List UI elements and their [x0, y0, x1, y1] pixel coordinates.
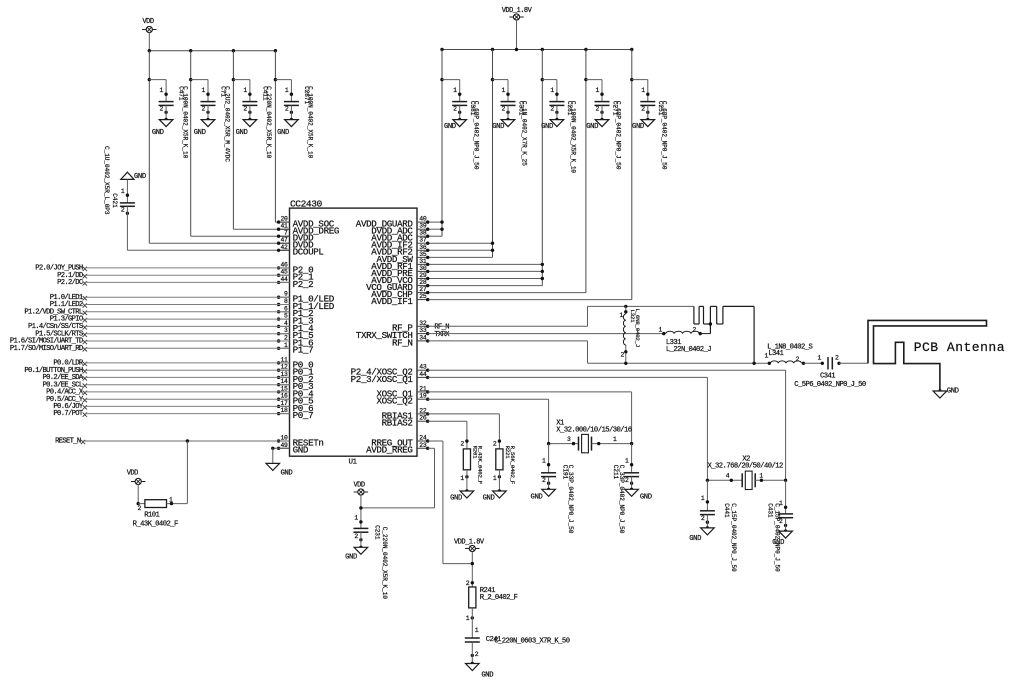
svg-text:AVDD_RREG: AVDD_RREG	[366, 445, 412, 456]
svg-text:7: 7	[284, 230, 288, 237]
pin 20 AVDD_SOC	[277, 216, 335, 230]
svg-text:2: 2	[460, 440, 464, 447]
svg-text:2: 2	[285, 106, 289, 113]
pin 46 P2_0	[277, 261, 313, 275]
wire TXRX net	[428, 333, 664, 335]
pin 38 AVDD_ADC	[371, 230, 429, 244]
svg-text:40: 40	[419, 216, 427, 223]
inductor L321	[619, 305, 640, 365]
pin 9 P1_0/LED	[277, 291, 335, 305]
pin 19 XOSC_Q2	[376, 393, 429, 407]
pin 1 P1_7	[277, 342, 313, 356]
svg-text:GND: GND	[450, 495, 462, 503]
svg-text:P2.2/DC: P2.2/DC	[57, 279, 84, 287]
svg-text:C_68P_0402_NP0_J_50: C_68P_0402_NP0_J_50	[660, 101, 667, 170]
svg-text:26: 26	[419, 415, 427, 422]
svg-text:VDD: VDD	[142, 18, 153, 26]
svg-text:GND: GND	[277, 129, 289, 137]
svg-text:C_1N_0402_X7R_K_25: C_1N_0402_X7R_K_25	[521, 101, 528, 166]
svg-text:1: 1	[641, 87, 645, 94]
wire VDD to left bus	[148, 33, 150, 51]
capacitor C381	[444, 80, 479, 170]
pin 44 P2_3/XOSC_Q1	[351, 371, 430, 385]
svg-text:11: 11	[281, 356, 289, 363]
capacitor C431	[767, 480, 793, 572]
svg-text:C341: C341	[820, 373, 835, 381]
inductor L341	[764, 343, 812, 365]
svg-text:2: 2	[835, 355, 839, 362]
svg-text:1: 1	[201, 87, 205, 94]
wire right VDD_1.8V bus	[442, 49, 632, 51]
svg-text:47: 47	[281, 237, 289, 244]
svg-text:2: 2	[137, 505, 141, 512]
node RESET_N	[55, 438, 289, 446]
svg-text:C_33P_0402_NP0_J_50: C_33P_0402_NP0_J_50	[567, 465, 574, 534]
svg-text:GND: GND	[152, 129, 164, 137]
capacitor C341	[794, 355, 866, 390]
svg-text:35: 35	[419, 251, 427, 258]
capacitor C421	[103, 146, 135, 250]
svg-text:GND: GND	[483, 495, 495, 503]
svg-text:C_100N_0402_X5R_K_10: C_100N_0402_X5R_K_10	[181, 86, 188, 159]
svg-text:49: 49	[281, 442, 289, 449]
node left bus junctions	[148, 49, 277, 52]
svg-text:5: 5	[284, 313, 288, 320]
node P0.4/ACC_X	[46, 389, 289, 397]
node P1.5/SCLK/RTS	[35, 330, 289, 338]
svg-text:VDD: VDD	[127, 470, 138, 478]
svg-text:X_32.000/10/15/30/16: X_32.000/10/15/30/16	[556, 427, 632, 435]
svg-text:1: 1	[613, 436, 617, 443]
pin 36 AVDD_RF2	[371, 244, 429, 258]
ground (U1 pin 49)	[266, 463, 292, 477]
svg-text:1: 1	[501, 87, 505, 94]
wire VDD to C231	[360, 495, 362, 528]
svg-text:2: 2	[493, 440, 497, 447]
node P2.2/DC	[57, 279, 289, 287]
pin 21 XOSC_Q1	[376, 385, 429, 399]
svg-text:1: 1	[493, 475, 497, 482]
pin 49 GND	[277, 442, 309, 456]
svg-text:29: 29	[419, 272, 427, 279]
svg-text:GND: GND	[531, 493, 543, 501]
svg-text:44: 44	[281, 276, 289, 283]
svg-text:R_2_0402_F: R_2_0402_F	[480, 594, 518, 602]
svg-text:1: 1	[542, 458, 546, 465]
pin 28 VCO_GUARD	[366, 279, 429, 293]
pin 47 DVDD	[277, 237, 314, 251]
wire right branch 3	[541, 50, 557, 286]
wire C341 to antenna	[839, 362, 868, 364]
svg-text:VDD: VDD	[353, 482, 364, 490]
node P2.0/JOY_PUSH	[35, 265, 289, 273]
svg-text:2: 2	[466, 580, 470, 587]
pin 37 AVDD_IF2	[371, 237, 429, 251]
wire RBIAS2 to R261	[428, 420, 467, 422]
pin 22 RBIAS1	[382, 407, 430, 421]
svg-text:2: 2	[354, 533, 358, 540]
power symbol VDD (R101)	[127, 470, 146, 485]
svg-text:R_43K_0402_F: R_43K_0402_F	[133, 521, 178, 529]
svg-text:1: 1	[121, 188, 125, 195]
wire P2_3/XOSC_Q1 to X2	[428, 376, 708, 378]
svg-text:18: 18	[281, 407, 289, 414]
pin 8 P1_1/LED	[277, 298, 335, 312]
svg-text:10: 10	[281, 435, 289, 442]
svg-text:GND: GND	[293, 445, 309, 456]
pin 25 AVDD_IF1	[371, 293, 429, 307]
svg-text:P1.7/SO/MISO/UART_RD: P1.7/SO/MISO/UART_RD	[10, 345, 83, 353]
pin 10 RESETn	[277, 435, 324, 449]
svg-text:RF_N: RF_N	[392, 337, 413, 348]
svg-text:C421: C421	[111, 193, 118, 208]
crystal X1	[547, 420, 633, 453]
svg-text:1: 1	[460, 475, 464, 482]
svg-text:RBIAS2: RBIAS2	[382, 418, 413, 429]
power symbol VDD_1.8V (top right)	[502, 7, 533, 20]
capacitor C251	[632, 80, 667, 170]
pin 13 P0_2	[277, 371, 313, 385]
svg-text:R_56K_0402_F: R_56K_0402_F	[509, 446, 516, 485]
svg-text:GND: GND	[481, 671, 493, 679]
svg-text:1: 1	[243, 87, 247, 94]
svg-text:12: 12	[281, 364, 289, 371]
svg-text:14: 14	[281, 378, 289, 385]
svg-text:2: 2	[701, 515, 705, 522]
svg-text:L_6N8_0402_J: L_6N8_0402_J	[634, 309, 641, 348]
pin 23 AVDD_RREG	[366, 442, 429, 456]
svg-text:3: 3	[567, 436, 571, 443]
svg-text:P2_3/XOSC_Q1: P2_3/XOSC_Q1	[351, 374, 414, 385]
svg-text:44: 44	[419, 371, 427, 378]
wire right power net row 7	[428, 263, 543, 265]
wire left VDD bus	[149, 50, 275, 52]
svg-text:1: 1	[550, 87, 554, 94]
svg-text:21: 21	[419, 385, 427, 392]
wire GND pin to ground	[273, 447, 290, 449]
svg-text:1: 1	[595, 87, 599, 94]
svg-text:22: 22	[419, 407, 427, 414]
svg-text:TXRX: TXRX	[434, 331, 450, 339]
svg-text:15: 15	[281, 385, 289, 392]
capacitor C231	[345, 515, 388, 600]
pin 29 AVDD_VCO	[371, 272, 429, 286]
svg-text:2: 2	[453, 106, 457, 113]
svg-text:2: 2	[243, 106, 247, 113]
pin 7 DVDD	[277, 230, 314, 244]
svg-text:30: 30	[419, 265, 427, 272]
pin 11 P0_0	[277, 356, 313, 370]
svg-text:C_1U_0402_X5R_L_0P3: C_1U_0402_X5R_L_0P3	[103, 146, 110, 215]
svg-text:GND: GND	[194, 129, 206, 137]
svg-text:1: 1	[466, 615, 470, 622]
svg-text:GND: GND	[281, 470, 293, 478]
capacitor C191	[531, 444, 574, 534]
wire RESET_N to R101	[186, 441, 188, 504]
pin 16 P0_5	[277, 393, 313, 407]
pin 18 P0_7	[277, 407, 313, 421]
svg-text:VDD_1.8V: VDD_1.8V	[454, 539, 485, 547]
wire right branch 5	[630, 50, 648, 300]
svg-text:6: 6	[284, 305, 288, 312]
svg-text:C441: C441	[723, 503, 730, 518]
svg-text:25: 25	[419, 293, 427, 300]
pin 27 AVDD_CHP	[371, 286, 429, 300]
wire left branch 2	[189, 51, 290, 237]
pin 6 P1_2	[277, 305, 313, 319]
svg-text:GND: GND	[345, 553, 357, 561]
wire P2_4/XOSC_Q2 to X2	[428, 369, 786, 371]
capacitor C241	[465, 627, 570, 679]
node P0.6/JOY	[53, 403, 289, 411]
svg-text:C_15P_0402_NP0_J_50: C_15P_0402_NP0_J_50	[774, 503, 781, 572]
svg-text:L341: L341	[768, 350, 783, 358]
svg-text:1: 1	[701, 495, 705, 502]
svg-text:C431: C431	[767, 503, 774, 518]
resistor R241	[466, 580, 518, 638]
capacitor C211	[612, 444, 652, 534]
capacitor C411	[236, 80, 273, 159]
wire left branch 3	[232, 51, 290, 230]
wire right branch 2	[491, 50, 508, 258]
svg-text:19: 19	[419, 393, 427, 400]
svg-text:2: 2	[550, 106, 554, 113]
svg-text:39: 39	[419, 223, 427, 230]
node P1.0/LED1	[50, 294, 290, 302]
wire RBIAS1 to R221	[428, 413, 500, 415]
svg-text:2: 2	[160, 106, 164, 113]
svg-text:37: 37	[419, 237, 427, 244]
svg-text:GND: GND	[586, 123, 598, 131]
node P0.3/EE_SCL	[43, 381, 290, 389]
power symbol VDD (top left)	[142, 18, 156, 32]
wire VDD to R101 pin 2	[137, 485, 139, 504]
svg-text:GND: GND	[444, 123, 456, 131]
wire left branch 1	[148, 51, 290, 244]
svg-text:C_220N_0603_X7R_K_50: C_220N_0603_X7R_K_50	[494, 637, 570, 645]
pin 32 RF_P	[392, 320, 429, 334]
svg-text:C_68P_0402_NP0_J_50: C_68P_0402_NP0_J_50	[472, 101, 479, 170]
svg-text:PCB Antenna: PCB Antenna	[914, 340, 1005, 355]
pin 30 AVDD_PRE	[371, 265, 429, 279]
svg-text:1: 1	[817, 355, 821, 362]
svg-text:2: 2	[475, 651, 479, 658]
wire right branch 1	[440, 50, 459, 237]
node right bus junctions	[440, 48, 633, 51]
pin 41 AVDD_DREG	[277, 223, 339, 237]
IC U1 CC2430 body	[290, 208, 418, 456]
svg-text:1: 1	[658, 327, 662, 334]
svg-text:1: 1	[453, 87, 457, 94]
svg-text:C_220N_0402_X5R_K_10: C_220N_0402_X5R_K_10	[265, 86, 272, 159]
node P0.5/ACC_Y	[46, 396, 289, 404]
svg-text:C_33P_0402_NP0_J_50: C_33P_0402_NP0_J_50	[618, 465, 625, 534]
pin 42 DCOUPL	[277, 244, 324, 258]
svg-text:C_100N_0402_X5R_K_10: C_100N_0402_X5R_K_10	[307, 86, 314, 159]
svg-text:31: 31	[419, 258, 427, 265]
svg-text:24: 24	[419, 435, 427, 442]
svg-text:C_68P_0402_NP0_J_50: C_68P_0402_NP0_J_50	[615, 101, 622, 170]
svg-text:2: 2	[595, 106, 599, 113]
pin 3 P1_5	[277, 327, 313, 341]
node P1.6/SI/MOSI/UART_TD	[10, 338, 290, 346]
node P0.2/EE_SDA	[43, 374, 290, 382]
svg-text:32: 32	[419, 320, 427, 327]
svg-text:20: 20	[281, 216, 289, 223]
svg-text:8: 8	[284, 298, 288, 305]
balun meander (top)	[694, 306, 756, 365]
svg-text:38: 38	[419, 230, 427, 237]
pin 45 P2_1	[277, 269, 314, 283]
svg-text:AVDD_IF1: AVDD_IF1	[371, 296, 413, 307]
wire right power net row 9	[428, 278, 543, 280]
wire VDD_1.8V to R241	[471, 552, 473, 587]
pin 40 AVDD_DGUARD	[356, 216, 430, 230]
svg-text:GND: GND	[632, 123, 644, 131]
pin 14 P0_3	[277, 378, 313, 392]
resistor R261	[450, 440, 483, 502]
node P1.1/LED2	[50, 301, 290, 309]
svg-text:P0_7: P0_7	[293, 410, 314, 421]
wire right power net row 3	[428, 235, 442, 237]
pin 44 P2_2	[277, 276, 313, 290]
wire XOSC_Q2 to X1	[428, 398, 549, 400]
wire VDD_1.8V to right bus	[516, 20, 518, 49]
svg-text:36: 36	[419, 244, 427, 251]
svg-text:2: 2	[284, 335, 288, 342]
svg-text:C_220N_0402_X5R_K_10: C_220N_0402_X5R_K_10	[381, 527, 388, 600]
wire RF_P net	[428, 325, 588, 327]
svg-text:DCOUPL: DCOUPL	[293, 247, 324, 258]
svg-text:3: 3	[284, 327, 288, 334]
node P1.4/CSn/SS/CTS	[28, 323, 290, 331]
power symbol VDD_1.8V (R241)	[454, 539, 485, 552]
svg-text:C_5P6_0402_NP0_J_50: C_5P6_0402_NP0_J_50	[794, 381, 866, 389]
capacitor C471	[152, 80, 189, 159]
svg-text:2: 2	[692, 327, 696, 334]
svg-text:XOSC_Q2: XOSC_Q2	[376, 396, 412, 407]
pin 24 RREG_OUT	[371, 435, 429, 449]
capacitor C271	[586, 80, 621, 170]
svg-text:GND: GND	[640, 493, 652, 501]
pin 31 AVDD_RF1	[371, 258, 429, 272]
svg-text:1: 1	[759, 473, 763, 480]
svg-text:1: 1	[475, 627, 479, 634]
svg-text:41: 41	[281, 223, 289, 230]
capacitor C351	[492, 80, 527, 167]
svg-text:16: 16	[281, 393, 289, 400]
wire right power net row 8	[428, 270, 543, 272]
wire left branch 4	[274, 51, 292, 222]
ground (antenna)	[933, 388, 959, 398]
svg-text:2: 2	[501, 106, 505, 113]
wire right power net row 10	[428, 285, 543, 287]
capacitor C71	[194, 80, 231, 163]
wire right branch 4	[584, 50, 602, 293]
svg-text:2: 2	[795, 356, 799, 363]
svg-text:28: 28	[419, 279, 427, 286]
wire right power net row 5	[428, 249, 493, 251]
wire C421 to DCOUPL	[127, 249, 289, 251]
svg-text:23: 23	[419, 442, 427, 449]
svg-text:2: 2	[641, 106, 645, 113]
svg-text:C_15P_0402_NP0_J_50: C_15P_0402_NP0_J_50	[730, 503, 737, 572]
svg-text:9: 9	[284, 291, 288, 298]
svg-text:C_100N_0402_X5R_K_10: C_100N_0402_X5R_K_10	[570, 101, 577, 174]
svg-text:C_2U2_0402_X5R_M_4VDC: C_2U2_0402_X5R_M_4VDC	[223, 86, 230, 162]
pin 43 P2_4/XOSC_Q2	[351, 364, 430, 378]
inductor L331	[658, 327, 711, 354]
svg-text:1: 1	[619, 312, 623, 319]
wire right power net row 6	[428, 256, 493, 258]
svg-text:GND: GND	[689, 535, 701, 543]
pin 26 RBIAS2	[382, 415, 430, 429]
node P2.1/DD	[57, 272, 289, 280]
svg-text:45: 45	[281, 269, 289, 276]
pin 17 P0_6	[277, 400, 313, 414]
svg-text:42: 42	[281, 244, 289, 251]
svg-text:33: 33	[419, 327, 427, 334]
svg-text:U1: U1	[349, 459, 358, 467]
svg-text:34: 34	[419, 334, 427, 341]
wire right power net row 2	[428, 228, 442, 230]
svg-text:GND: GND	[492, 123, 504, 131]
capacitor C2871	[277, 80, 314, 159]
svg-text:GND: GND	[134, 173, 146, 181]
pin 4 P1_4	[277, 320, 314, 334]
svg-text:R101: R101	[144, 512, 159, 520]
svg-text:CC2430: CC2430	[290, 199, 323, 210]
pin 5 P1_3	[277, 313, 313, 327]
node P1.7/SO/MISO/UART_RD	[10, 345, 290, 353]
node P1.2/VDD_SW_CTRL	[24, 308, 289, 316]
svg-text:P2_2: P2_2	[293, 279, 314, 290]
svg-text:P0.7/POT: P0.7/POT	[53, 410, 83, 418]
node P0.1/BUTTON_PUSH	[24, 367, 289, 375]
svg-text:L_22N_0402_J: L_22N_0402_J	[666, 346, 711, 354]
svg-text:1: 1	[285, 87, 289, 94]
svg-text:GND: GND	[947, 388, 959, 396]
svg-text:13: 13	[281, 371, 289, 378]
wire right power net row 1	[428, 221, 442, 223]
PCB antenna	[868, 320, 1005, 391]
pin 39 DVDD_ADC	[371, 223, 429, 237]
node P0.0/LDR	[53, 360, 289, 368]
svg-text:2: 2	[201, 106, 205, 113]
svg-text:4: 4	[726, 473, 730, 480]
wire right power net row 4	[428, 242, 493, 244]
svg-text:GND: GND	[541, 123, 553, 131]
wire RREG_OUT to VDD_1.8V	[428, 440, 443, 442]
svg-text:2: 2	[542, 477, 546, 484]
resistor R221	[483, 440, 516, 502]
svg-text:2: 2	[121, 207, 125, 214]
node P0.7/POT	[53, 410, 289, 418]
svg-text:GND: GND	[236, 129, 248, 137]
resistor R101	[133, 496, 188, 528]
svg-text:R_43K_0402_F: R_43K_0402_F	[476, 446, 483, 485]
svg-text:46: 46	[281, 261, 289, 268]
svg-text:P1_7: P1_7	[293, 345, 314, 356]
node P1.3/GPIO	[50, 316, 290, 324]
wire RF_N net	[428, 340, 588, 342]
svg-text:43: 43	[419, 364, 427, 371]
wire L341 to C341	[804, 362, 823, 364]
pin 35 AVDD_SW	[376, 251, 429, 265]
wire right power net row 11	[428, 292, 586, 294]
svg-text:2: 2	[620, 351, 624, 358]
crystal X2	[706, 455, 788, 489]
